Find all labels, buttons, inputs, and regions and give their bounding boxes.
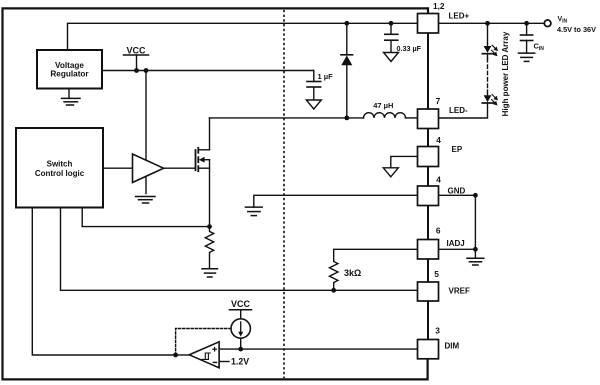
svg-text:LED-: LED- <box>449 106 468 115</box>
svg-text:0.33 µF: 0.33 µF <box>397 44 422 53</box>
svg-text:GND: GND <box>448 187 466 196</box>
svg-text:Regulator: Regulator <box>50 70 89 79</box>
svg-text:DIM: DIM <box>445 341 460 350</box>
svg-text:47 µH: 47 µH <box>373 101 393 110</box>
svg-text:VREF: VREF <box>449 287 470 296</box>
svg-text:Voltage: Voltage <box>55 61 84 70</box>
svg-text:1 µF: 1 µF <box>318 72 334 81</box>
svg-text:LED+: LED+ <box>449 11 470 20</box>
svg-text:4.5V to 36V: 4.5V to 36V <box>557 25 596 34</box>
svg-text:IADJ: IADJ <box>447 239 465 248</box>
svg-text:EP: EP <box>452 145 463 154</box>
svg-text:Control logic: Control logic <box>35 169 85 178</box>
svg-text:VCC: VCC <box>126 46 146 56</box>
svg-text:1.2V: 1.2V <box>231 356 249 366</box>
svg-text:VCC: VCC <box>231 299 251 309</box>
svg-text:1,2: 1,2 <box>433 1 445 11</box>
svg-text:7: 7 <box>436 96 441 106</box>
svg-text:3: 3 <box>435 326 440 336</box>
svg-text:Switch: Switch <box>47 159 73 168</box>
svg-text:4: 4 <box>436 174 441 184</box>
svg-text:4: 4 <box>436 135 441 145</box>
svg-text:3kΩ: 3kΩ <box>344 268 361 278</box>
svg-text:5: 5 <box>434 269 439 279</box>
svg-text:High power LED Array: High power LED Array <box>501 31 510 116</box>
svg-text:6: 6 <box>436 225 441 235</box>
